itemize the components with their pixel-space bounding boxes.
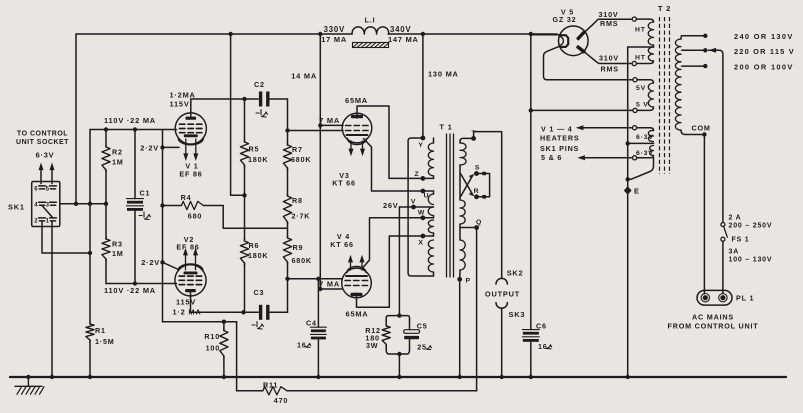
label R10 xyxy=(204,332,220,341)
svg-text:EF 86: EF 86 xyxy=(176,243,199,252)
label V5 xyxy=(561,8,574,17)
svg-text:EF 86: EF 86 xyxy=(179,170,202,179)
label 115V V1 xyxy=(170,100,190,109)
svg-text:UNIT SOCKET: UNIT SOCKET xyxy=(16,139,69,146)
wire SK1 pin2 down and right xyxy=(42,222,90,254)
svg-text:310V: 310V xyxy=(599,10,619,19)
wire feedback to R11 xyxy=(287,390,477,392)
wire R1 branch vertical xyxy=(89,134,91,378)
wire winding frame to earth line xyxy=(628,158,654,180)
wire 5V return xyxy=(531,109,633,111)
wire V3 heater pins with arrows xyxy=(349,141,366,156)
winding T2 6.3V lower xyxy=(637,146,654,158)
label V1-4 xyxy=(541,125,573,134)
label R8 value xyxy=(292,211,311,220)
label C4 xyxy=(306,319,317,328)
svg-text:KT 66: KT 66 xyxy=(332,178,356,187)
svg-text:V 1 — 4: V 1 — 4 xyxy=(541,125,573,134)
wire HT+ top rail xyxy=(76,33,557,35)
tube V2 EF86 xyxy=(175,248,206,298)
wire cathode junction rail xyxy=(163,321,237,323)
transformer T1 frame left xyxy=(408,138,433,276)
svg-text:25: 25 xyxy=(417,343,427,352)
wire mains tap 200 xyxy=(682,64,708,68)
wire HT rail left drop to SK1 pin3 node xyxy=(75,34,77,204)
svg-text:3W: 3W xyxy=(366,341,378,350)
svg-text:5V: 5V xyxy=(636,85,646,92)
svg-text:R3: R3 xyxy=(112,239,123,248)
terminal T xyxy=(471,130,476,141)
svg-text:AC MAINS: AC MAINS xyxy=(692,312,734,321)
label 147 MA xyxy=(388,35,419,44)
svg-text:FS 1: FS 1 xyxy=(732,237,750,244)
node R10 top xyxy=(222,320,226,324)
capacitor C4 xyxy=(310,279,326,377)
wire C2 to V3 grid ladder xyxy=(270,99,288,131)
label C6 value xyxy=(538,342,552,351)
label T2 xyxy=(658,4,671,13)
wire ladder to C3 xyxy=(270,279,288,313)
winding T2 mains xyxy=(675,36,702,135)
svg-text:65MA: 65MA xyxy=(345,96,368,105)
wire COM to PL1 xyxy=(703,135,705,294)
terminal Q xyxy=(474,219,482,230)
capacitor C2 xyxy=(259,92,270,107)
svg-text:R6: R6 xyxy=(249,241,260,250)
label 5V upper xyxy=(636,85,646,92)
capacitor C6 xyxy=(522,330,539,342)
node top screen wire / R2 xyxy=(104,127,108,131)
node HT rail / 340V to T1 xyxy=(421,32,425,36)
label 115V V2 xyxy=(176,297,196,306)
node R5-R6 mid junction xyxy=(242,193,246,197)
svg-text:180K: 180K xyxy=(248,251,268,260)
pin 1 of SK1 xyxy=(46,218,57,225)
label 7MA V4 xyxy=(319,280,340,289)
label COM xyxy=(692,124,711,133)
svg-text:3A: 3A xyxy=(729,248,740,255)
label R2 xyxy=(112,148,123,157)
label 6.3V lower xyxy=(636,150,654,157)
label R9 value xyxy=(292,256,312,265)
resistor R11 xyxy=(263,387,287,395)
svg-text:R8: R8 xyxy=(292,196,303,205)
resistor R3 xyxy=(102,204,110,284)
label 2.2V V1 xyxy=(140,143,159,152)
label 310V RMS top xyxy=(599,10,619,28)
label OUTPUT xyxy=(485,289,520,298)
terminal HT2 xyxy=(632,61,636,65)
winding T2 HT upper xyxy=(636,19,653,47)
wire screen rail bottom 110V xyxy=(106,283,177,285)
label R3 xyxy=(112,239,123,248)
label R5 value xyxy=(248,155,268,164)
terminal 6.3V upper xyxy=(633,126,637,130)
label 14 MA xyxy=(291,71,317,80)
svg-text:HT: HT xyxy=(635,54,646,61)
resistor R2 xyxy=(102,130,110,204)
svg-text:GZ 32: GZ 32 xyxy=(553,15,577,24)
label V3 xyxy=(339,171,349,180)
tube V3 KT66 xyxy=(342,113,372,144)
terminal COM xyxy=(702,132,706,136)
wire 6.3V centre tap xyxy=(628,142,654,144)
wire V2 cathode xyxy=(163,262,179,269)
svg-text:R10: R10 xyxy=(204,332,220,341)
svg-text:R5: R5 xyxy=(249,144,260,153)
node R10 at bus xyxy=(222,375,226,379)
svg-text:SK3: SK3 xyxy=(509,310,526,319)
label 2.2V V2 xyxy=(141,258,160,267)
node pin1 at bus xyxy=(50,375,54,379)
node C4 at bus xyxy=(316,375,320,379)
wire cathode tie vertical xyxy=(162,130,164,322)
terminal 5V lower xyxy=(633,108,637,112)
label 5 and 6 xyxy=(541,153,562,162)
node bottom screen wire / C1 xyxy=(133,281,137,285)
polarity mark C3 xyxy=(252,322,263,329)
node V3 grid tap xyxy=(285,128,289,132)
wire V tap to bias network xyxy=(399,207,413,316)
node V1 anode / R5 xyxy=(242,97,246,101)
wire HT centre tap xyxy=(628,46,654,48)
winding T1 X-bottom xyxy=(428,240,433,276)
socket SK1 outline xyxy=(32,182,60,227)
svg-text:HEATERS: HEATERS xyxy=(540,134,579,143)
wire mains tap 240 xyxy=(682,34,708,38)
node E line at bus xyxy=(626,375,630,379)
terminal Y xyxy=(418,136,425,149)
terminal S xyxy=(474,165,480,176)
label V2 xyxy=(184,235,194,244)
label 1.2MA V1 xyxy=(170,90,196,99)
node V2 anode / R6 xyxy=(241,310,245,314)
svg-text:26V: 26V xyxy=(383,201,399,210)
node bias at bus xyxy=(397,375,401,379)
label R7 xyxy=(292,145,303,154)
wire heater feed upper with arrow xyxy=(576,125,633,130)
svg-text:R11: R11 xyxy=(263,380,278,389)
svg-text:S: S xyxy=(475,165,480,172)
wire V4 heater pins with arrows xyxy=(348,255,365,270)
svg-text:240 OR 130V: 240 OR 130V xyxy=(734,32,794,41)
wire V2 anode to C3 xyxy=(191,295,259,312)
svg-text:C5: C5 xyxy=(417,322,428,331)
polarity mark C2 xyxy=(256,110,267,117)
svg-text:180K: 180K xyxy=(248,155,268,164)
label 1.2MA V2 xyxy=(173,308,202,317)
label AC MAINS xyxy=(692,312,734,321)
wire tap T to SK2 xyxy=(474,132,502,278)
svg-text:C4: C4 xyxy=(306,319,317,328)
label 2A 200-250V xyxy=(729,214,773,229)
node C4 grid tap xyxy=(316,277,320,281)
svg-text:L.I: L.I xyxy=(365,15,376,24)
svg-text:100 – 130V: 100 – 130V xyxy=(729,256,773,263)
label 26V xyxy=(383,201,399,210)
svg-text:SK1 PINS: SK1 PINS xyxy=(540,144,579,153)
svg-text:2·7K: 2·7K xyxy=(292,211,311,220)
svg-text:P: P xyxy=(466,277,471,284)
label SK1 PINS xyxy=(540,144,579,153)
label FROM CONTROL UNIT xyxy=(668,322,759,331)
wire V3 screen xyxy=(320,124,343,126)
winding T2 6.3V upper xyxy=(637,128,654,142)
label R5 xyxy=(249,144,260,153)
node SK3 at bus xyxy=(500,375,504,379)
label 65MA V4 xyxy=(346,309,369,318)
label 6.3V upper xyxy=(636,134,654,141)
resistor R5 xyxy=(240,99,248,195)
polarity mark C1 xyxy=(139,212,150,219)
label HEATERS xyxy=(540,134,579,143)
wire V4 anode to T1 tap X xyxy=(357,236,422,307)
svg-text:2 A: 2 A xyxy=(729,214,742,221)
node ground stub xyxy=(26,375,30,379)
label SK1 xyxy=(8,203,25,212)
label R3 value xyxy=(112,249,124,258)
svg-text:100: 100 xyxy=(206,343,220,352)
svg-text:470: 470 xyxy=(274,396,288,405)
wire V1 cathode xyxy=(163,146,180,148)
wire mains tap 220 xyxy=(682,48,708,52)
node V4 grid tap xyxy=(285,277,289,281)
winding T1 cathode V-W xyxy=(424,207,434,218)
resistor R12 xyxy=(382,320,390,350)
label V1 xyxy=(185,162,198,171)
svg-text:200 OR 100V: 200 OR 100V xyxy=(734,62,794,71)
svg-text:220 OR 115 V: 220 OR 115 V xyxy=(734,47,795,56)
svg-text:340V: 340V xyxy=(390,25,411,34)
node V1 cathode tap xyxy=(160,145,164,149)
node top screen wire / C1 xyxy=(133,127,137,131)
wire SK1 pin3 to grid divider xyxy=(60,203,106,205)
tube V4 KT66 xyxy=(342,267,372,298)
label R6 value xyxy=(248,251,268,260)
winding T1 secondary bottom xyxy=(460,228,465,279)
label R8 xyxy=(292,196,303,205)
svg-text:330V: 330V xyxy=(324,25,345,34)
label TO CONTROL UNIT SOCKET xyxy=(16,130,69,146)
svg-text:7 MA: 7 MA xyxy=(319,116,340,125)
svg-text:R2: R2 xyxy=(112,148,123,157)
svg-text:7 MA: 7 MA xyxy=(319,280,340,289)
label 220 OR 115V xyxy=(734,47,795,56)
svg-text:680: 680 xyxy=(188,212,202,221)
terminal V xyxy=(411,198,416,209)
wire GZ32 anode 1 to HT winding xyxy=(585,19,634,32)
node pin3 wire / R1 branch xyxy=(88,202,92,206)
svg-text:TO CONTROL: TO CONTROL xyxy=(17,130,68,137)
label C5 value xyxy=(417,343,431,352)
svg-text:C2: C2 xyxy=(254,80,265,89)
capacitor C1 xyxy=(127,130,144,284)
svg-text:310V: 310V xyxy=(599,54,619,63)
label EF86 V1 xyxy=(179,170,202,179)
label R1 value xyxy=(95,337,115,346)
terminal E xyxy=(624,186,632,195)
svg-text:COM: COM xyxy=(692,124,711,133)
svg-text:KT 66: KT 66 xyxy=(330,240,354,249)
terminal Z xyxy=(415,171,426,181)
winding T1 W-X xyxy=(424,220,434,236)
wire link pin4 to pin1 xyxy=(42,206,53,219)
label R4 xyxy=(181,193,192,202)
pin 6 of SK1 xyxy=(34,186,45,193)
wire GZ32 anode 2 to HT winding xyxy=(586,53,634,64)
capacitor C5 xyxy=(404,320,420,350)
capacitor C3 xyxy=(259,305,270,320)
wire bias network top xyxy=(386,316,409,320)
wire bias network bottom xyxy=(386,350,409,377)
svg-text:680K: 680K xyxy=(291,155,311,164)
fuse FS1 xyxy=(721,223,727,242)
wire S-R selector strap xyxy=(477,172,490,199)
svg-text:PL 1: PL 1 xyxy=(736,294,754,303)
svg-text:6·3V: 6·3V xyxy=(636,134,654,141)
svg-text:16: 16 xyxy=(538,342,548,351)
terminal U xyxy=(421,189,430,200)
label 240 OR 130V xyxy=(734,32,794,41)
wire R4 to grid-return bridge xyxy=(223,206,287,229)
label 17 MA xyxy=(321,35,347,44)
svg-text:Z: Z xyxy=(415,171,420,178)
svg-text:Q: Q xyxy=(476,219,482,226)
svg-text:14 MA: 14 MA xyxy=(291,71,317,80)
label SK2 xyxy=(507,268,524,277)
wire selected tap to fuse xyxy=(709,48,723,223)
wire HT reservoir vertical xyxy=(530,34,532,377)
label R10 value xyxy=(206,343,220,352)
node P at bus xyxy=(458,375,462,379)
svg-text:T 2: T 2 xyxy=(658,4,671,13)
svg-text:OUTPUT: OUTPUT xyxy=(485,289,520,298)
wire earth line xyxy=(627,47,629,377)
svg-text:110V ·22 MA: 110V ·22 MA xyxy=(104,116,156,125)
wire SK1 pin1 to ground bus xyxy=(51,222,53,378)
wire V4 screen xyxy=(320,288,341,290)
wire V1 anode to C2 xyxy=(191,99,258,112)
svg-text:6·3V: 6·3V xyxy=(636,150,654,157)
label SK3 xyxy=(509,310,526,319)
svg-text:680K: 680K xyxy=(292,256,312,265)
svg-text:1M: 1M xyxy=(112,157,124,166)
node 5V takeoff xyxy=(529,108,533,112)
terminal W xyxy=(418,210,425,221)
label 6.3V heaters xyxy=(36,151,55,160)
node HT rail / screens feed 330V xyxy=(318,32,322,36)
label KT66 V3 xyxy=(332,178,356,187)
wire screen rail top 110V xyxy=(90,130,177,134)
label C1 xyxy=(140,188,151,197)
winding T1 secondary mid xyxy=(460,165,465,228)
label V4 xyxy=(337,232,350,241)
label C3 xyxy=(254,288,265,297)
label HT1 xyxy=(635,26,646,33)
label 310V RMS bottom xyxy=(599,54,619,74)
svg-text:R4: R4 xyxy=(181,193,192,202)
svg-text:5 V: 5 V xyxy=(636,101,649,108)
wire HT drop to anode loads xyxy=(231,34,245,195)
svg-text:R1: R1 xyxy=(95,326,106,335)
wire S cross link xyxy=(461,174,475,197)
node 6.3V CT on earth line xyxy=(626,141,630,145)
resistor R9 xyxy=(283,236,291,279)
svg-text:115V: 115V xyxy=(176,297,196,306)
svg-text:6·3V: 6·3V xyxy=(36,151,55,160)
pin 5 of SK1 xyxy=(46,186,57,193)
label KT66 V4 xyxy=(330,240,354,249)
wire V4 cathode to T1 tap W xyxy=(363,218,421,268)
label 340V xyxy=(390,25,411,34)
label 5V lower xyxy=(636,101,649,108)
label 200 OR 100V xyxy=(734,62,794,71)
plug PL1 xyxy=(697,290,732,305)
svg-text:130 MA: 130 MA xyxy=(428,69,459,78)
svg-text:C1: C1 xyxy=(140,188,151,197)
svg-text:SK1: SK1 xyxy=(8,203,25,212)
svg-text:1M: 1M xyxy=(112,249,124,258)
label C2 xyxy=(254,80,265,89)
node pin2 wire joins R1 branch xyxy=(88,251,92,255)
pin 4 of SK1 xyxy=(34,202,45,209)
wire V4 grid xyxy=(288,278,342,280)
svg-text:1·5M: 1·5M xyxy=(95,337,115,346)
wire heater feed lower with arrow xyxy=(577,155,632,160)
label 7MA V3 xyxy=(319,116,340,125)
svg-text:147 MA: 147 MA xyxy=(388,35,419,44)
svg-text:115V: 115V xyxy=(170,100,190,109)
node pin3 wire / R2-R3 junction xyxy=(104,202,108,206)
winding T1 secondary top xyxy=(460,138,474,165)
node C6 at bus xyxy=(529,375,533,379)
terminal P xyxy=(457,277,471,285)
svg-text:E: E xyxy=(634,187,640,196)
node R4 tap xyxy=(160,203,164,207)
resistor R8 xyxy=(283,194,291,238)
wire R cross link xyxy=(461,174,475,197)
tube V1 EF86 xyxy=(175,111,206,161)
label R4 value xyxy=(188,212,202,221)
core T1 xyxy=(447,134,454,277)
label FS1 xyxy=(732,237,750,244)
svg-text:C6: C6 xyxy=(536,321,547,330)
label L1 xyxy=(365,15,376,24)
node pin3 wire / HT drop xyxy=(74,202,78,206)
wire fuse to PL1 xyxy=(722,241,724,293)
wire V3 anode to T1 tap Z xyxy=(357,106,421,178)
socket SK2 xyxy=(496,278,507,284)
node V3 screen tap xyxy=(318,123,322,127)
label R9 xyxy=(293,243,304,252)
wire V3 grid xyxy=(288,130,344,132)
socket SK3 xyxy=(496,303,507,309)
wire SK1 pin6 heater lead with arrow xyxy=(39,163,44,184)
svg-text:2·2V: 2·2V xyxy=(140,143,159,152)
resistor R7 xyxy=(283,131,291,197)
winding T2 5V xyxy=(637,80,654,111)
resistor R6 xyxy=(240,195,248,312)
wire SK3 to ground bus xyxy=(501,308,503,377)
terminal R xyxy=(474,188,480,199)
wire GZ32 filament to 5V winding xyxy=(544,47,634,80)
node HT rail / reservoir C6 xyxy=(529,32,533,36)
label 330V xyxy=(324,25,345,34)
svg-text:X: X xyxy=(418,240,423,247)
svg-text:1·2MA: 1·2MA xyxy=(170,90,196,99)
label R11 value xyxy=(274,396,288,405)
terminal HT1 xyxy=(632,17,636,21)
